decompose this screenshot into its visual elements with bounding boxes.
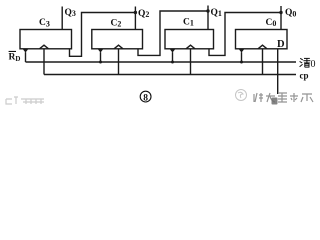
flip-flop C0 box [236,30,288,49]
flip-flop C2 box [92,30,143,49]
clock caret C3 [40,45,49,49]
wire Q0 output [280,6,282,30]
wire clock C2 to cp bus [118,49,120,75]
junction node Q1 tap [206,9,209,12]
svg-text:D: D [277,39,285,50]
wire Q1 output [207,6,209,30]
RD pin tick C0 [239,49,244,52]
watermark dark mark [272,98,278,105]
svg-text:Q3: Q3 [65,8,76,18]
svg-text:Q1: Q1 [211,8,222,18]
label clear-0 (Chinese qing 0) [300,58,311,67]
clear-0 bus [26,61,297,63]
svg-text:cp: cp [300,71,309,81]
watermark text bottom right [254,93,313,102]
wire serial input D of C0 [277,49,279,94]
svg-text:C0: C0 [266,18,277,28]
clock caret C1 [186,45,195,49]
junction node Q2 tap [134,11,137,14]
wire RD pin C1 to clear bus [172,52,174,62]
wire Q1 to D of C2 [138,11,208,55]
wire RD pin C3 to clear bus [25,52,27,62]
RD pin tick C1 [170,49,175,52]
flip-flop C1 box [165,30,214,49]
cp bus [44,74,296,76]
wire clock C3 to cp bus [43,49,45,75]
wire clock C0 to cp bus [262,49,264,75]
wire Q3 output [61,7,63,30]
overbar of RD [9,51,16,52]
wire Q0 to D of C1 [209,13,281,56]
svg-text:RD: RD [9,53,21,64]
watermark logo bottom right [236,90,247,101]
wire RD pin C0 to clear bus [241,52,243,62]
wire Q2 to D of C3 [70,13,136,57]
svg-text:Q0: Q0 [285,8,296,18]
clock caret C0 [258,45,267,49]
wire Q2 output [134,7,136,30]
wire RD pin C2 to clear bus [100,52,102,62]
svg-text:Q2: Q2 [138,9,149,19]
junction node C1 reset on clear bus [171,61,174,64]
watermark bottom left [6,97,44,104]
svg-text:C1: C1 [183,17,194,27]
svg-text:C2: C2 [111,18,122,28]
junction node C2 reset on clear bus [99,61,102,64]
junction node Q0 tap [279,11,282,14]
junction node C0 reset on clear bus [240,61,243,64]
svg-text:C3: C3 [39,18,50,28]
RD pin tick C2 [98,49,103,52]
flip-flop C3 box [20,30,72,49]
svg-text:8: 8 [143,93,148,103]
svg-text:0: 0 [311,59,316,70]
RD pin tick C3 [23,49,28,52]
clock caret C2 [114,45,123,49]
wire clock C1 to cp bus [190,49,192,75]
figure number 8 circled [140,91,151,103]
